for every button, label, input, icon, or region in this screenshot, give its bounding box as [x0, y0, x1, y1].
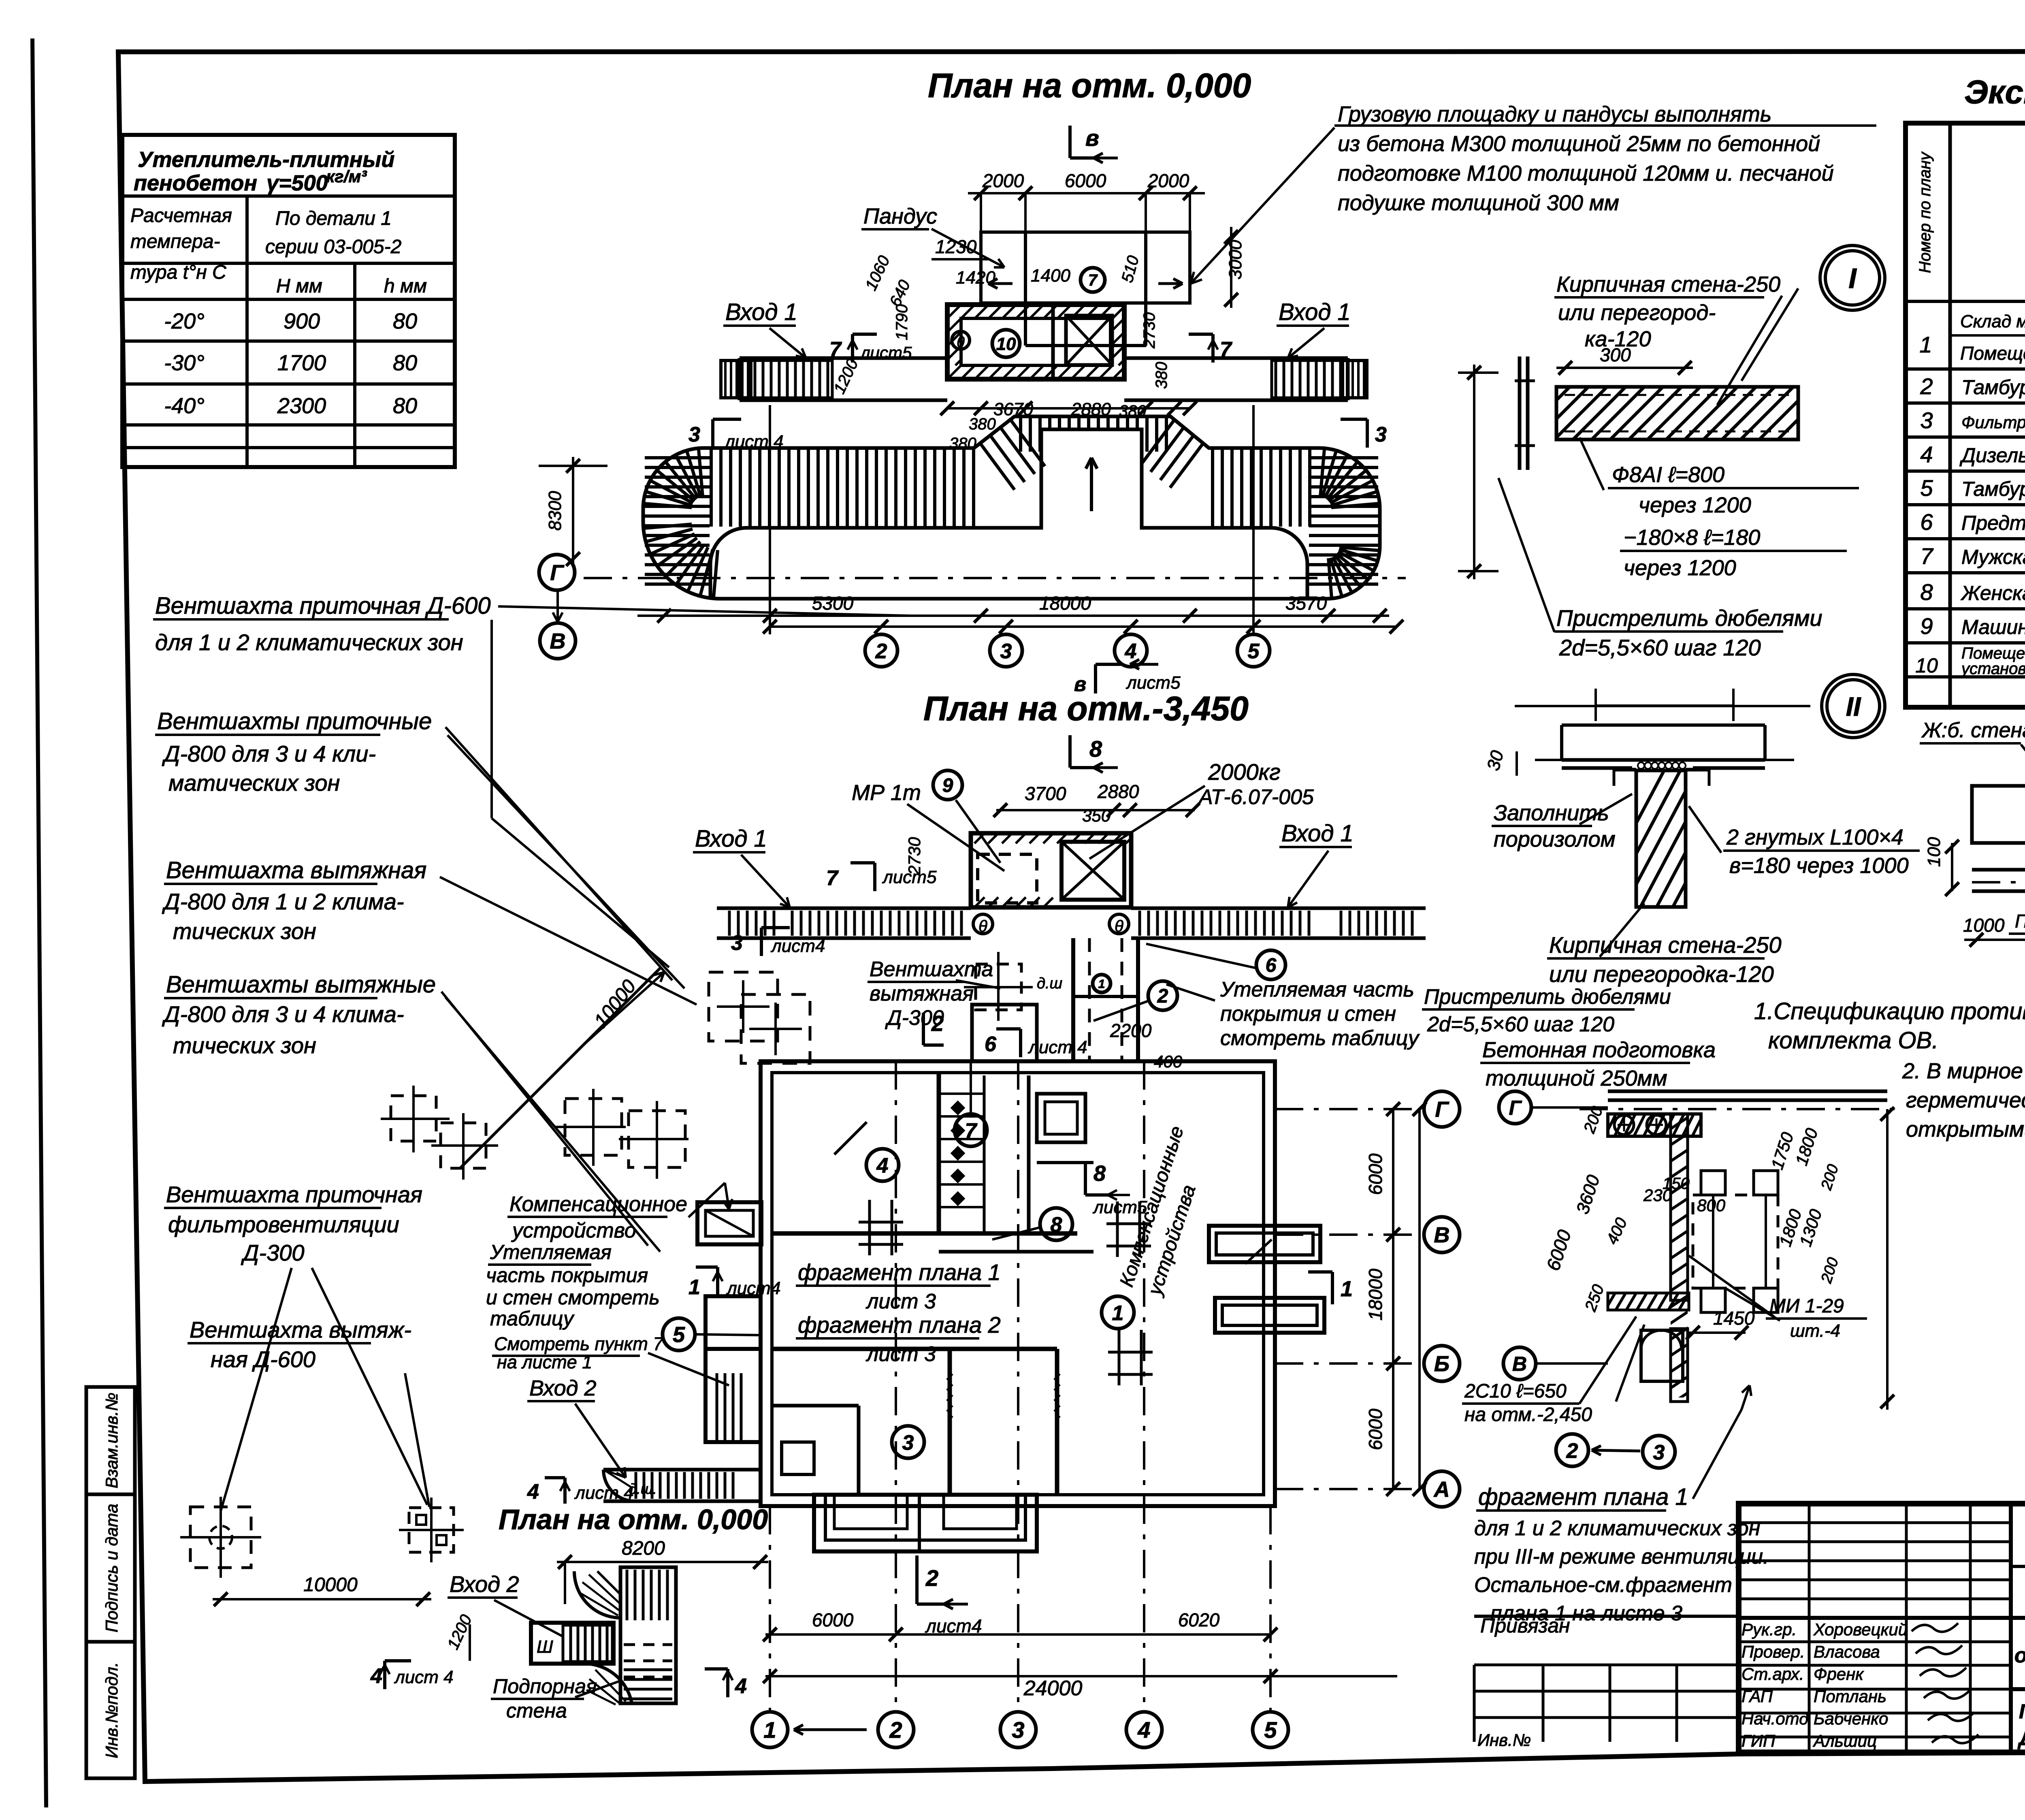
svg-text:Ш: Ш — [537, 1637, 553, 1657]
svg-text:24000: 24000 — [1023, 1677, 1083, 1700]
svg-text:для 1 и 2 климатических зон: для 1 и 2 климатических зон — [155, 629, 463, 655]
svg-text:Женская уборная: Женская уборная — [1960, 582, 2025, 604]
svg-text:6000: 6000 — [812, 1609, 854, 1630]
svg-text:оборудования отдельно: оборудования отдельно — [2014, 1644, 2025, 1667]
svg-text:через 1200: через 1200 — [1639, 493, 1751, 517]
svg-text:3: 3 — [1000, 640, 1012, 663]
svg-text:установки пожаротушения: установки пожаротушения — [1960, 660, 2025, 678]
svg-text:2d=5,5×60 шаг 120: 2d=5,5×60 шаг 120 — [1427, 1013, 1614, 1036]
svg-text:3: 3 — [1375, 423, 1387, 446]
svg-text:Потлань: Потлань — [1814, 1687, 1886, 1706]
svg-text:таблицу: таблицу — [490, 1307, 575, 1330]
svg-text:в=180 через 1000: в=180 через 1000 — [1729, 853, 1909, 878]
svg-text:7: 7 — [1220, 338, 1232, 361]
svg-text:II: II — [1846, 691, 1861, 721]
svg-text:Пристрелить дюбелями: Пристрелить дюбелями — [1556, 605, 1823, 631]
svg-text:лист5: лист5 — [882, 867, 937, 887]
svg-text:9: 9 — [1920, 613, 1933, 639]
svg-text:Бабченко: Бабченко — [1814, 1709, 1888, 1728]
svg-text:Д-800 для 1 и 2 клима-: Д-800 для 1 и 2 клима- — [162, 889, 404, 914]
svg-text:через 1200: через 1200 — [1624, 556, 1736, 580]
svg-text:6000: 6000 — [1365, 1153, 1386, 1195]
svg-text:2730: 2730 — [1140, 312, 1158, 349]
svg-text:Склад материалов и оборудовани: Склад материалов и оборудования — [1960, 312, 2025, 331]
svg-text:на листе 1: на листе 1 — [497, 1352, 592, 1372]
svg-text:лист4: лист4 — [925, 1615, 982, 1637]
svg-text:устройство: устройство — [511, 1219, 636, 1242]
svg-text:Нач.отд: Нач.отд — [1742, 1709, 1808, 1728]
svg-text:4: 4 — [370, 1664, 382, 1688]
svg-text:покрытия и стен: покрытия и стен — [1220, 1002, 1396, 1026]
svg-text:Компенсационное: Компенсационное — [509, 1193, 687, 1216]
svg-text:6000: 6000 — [1065, 170, 1106, 191]
svg-text:3: 3 — [688, 423, 700, 446]
svg-text:кг/м³: кг/м³ — [326, 167, 367, 186]
svg-text:тических зон: тических зон — [173, 918, 316, 944]
svg-text:Тамбур-шлюз: Тамбур-шлюз — [1961, 376, 2025, 399]
svg-text:θ: θ — [1115, 917, 1123, 935]
svg-text:шт.-4: шт.-4 — [1790, 1321, 1840, 1341]
svg-text:100: 100 — [1924, 837, 1944, 867]
svg-text:По детали 1: По детали 1 — [275, 208, 392, 229]
svg-text:4: 4 — [1137, 1717, 1150, 1743]
svg-text:10: 10 — [1915, 654, 1938, 677]
svg-text:Пандус: Пандус — [863, 204, 937, 228]
svg-text:6: 6 — [985, 1033, 997, 1056]
svg-text:МИ 1-29: МИ 1-29 — [1769, 1295, 1844, 1317]
svg-text:80: 80 — [393, 394, 417, 418]
svg-text:380: 380 — [1153, 362, 1170, 389]
svg-text:Вентшахта вытяж-: Вентшахта вытяж- — [190, 1317, 411, 1342]
svg-text:подушке толщиной 300 мм: подушке толщиной 300 мм — [1338, 191, 1619, 215]
svg-text:Утепляемая: Утепляемая — [490, 1241, 612, 1263]
svg-text:18000: 18000 — [1365, 1269, 1386, 1321]
svg-text:Подпись и дата: Подпись и дата — [102, 1504, 121, 1632]
svg-text:Вентшахта приточная Д-600: Вентшахта приточная Д-600 — [155, 593, 491, 619]
svg-text:1420: 1420 — [956, 268, 995, 288]
svg-text:2000: 2000 — [1147, 170, 1189, 191]
svg-text:7: 7 — [1088, 271, 1098, 289]
svg-text:6000: 6000 — [1365, 1408, 1386, 1450]
svg-text:стена: стена — [506, 1699, 567, 1722]
svg-text:80: 80 — [393, 309, 417, 333]
svg-text:7: 7 — [829, 338, 842, 361]
svg-text:18000: 18000 — [1039, 593, 1091, 614]
svg-text:2d=5,5×60 шаг 120: 2d=5,5×60 шаг 120 — [1559, 635, 1761, 660]
svg-text:Д-800 для 3 и 4 клима-: Д-800 для 3 и 4 клима- — [162, 1001, 404, 1027]
svg-text:Г: Г — [550, 561, 565, 585]
svg-text:6: 6 — [1920, 509, 1933, 535]
svg-text:9: 9 — [942, 775, 953, 796]
svg-text:Фильтровентиляционное помещени: Фильтровентиляционное помещение — [1961, 413, 2025, 432]
svg-text:В: В — [1512, 1353, 1527, 1375]
svg-text:фрагмент плана 1: фрагмент плана 1 — [1478, 1484, 1688, 1510]
svg-text:комплекта ОВ.: комплекта ОВ. — [1768, 1027, 1938, 1054]
svg-text:1700: 1700 — [277, 351, 326, 375]
svg-text:5300: 5300 — [812, 593, 854, 614]
svg-text:−180×8 ℓ=180: −180×8 ℓ=180 — [1624, 525, 1760, 550]
svg-text:ГИП: ГИП — [1742, 1731, 1776, 1750]
svg-text:3: 3 — [1012, 1717, 1024, 1743]
svg-text:или перегород-: или перегород- — [1558, 301, 1716, 325]
svg-text:Дизельная электростанция: Дизельная электростанция — [1959, 444, 2025, 467]
svg-text:Мужская уборная: Мужская уборная — [1961, 546, 2025, 568]
svg-text:8: 8 — [1051, 1213, 1062, 1237]
svg-text:Пристрелить дюбелями: Пристрелить дюбелями — [1424, 985, 1671, 1009]
svg-text:3570: 3570 — [1285, 593, 1327, 614]
svg-text:А: А — [1433, 1477, 1450, 1502]
svg-text:фрагмент плана 2: фрагмент плана 2 — [798, 1312, 1001, 1338]
svg-text:7: 7 — [1920, 543, 1933, 569]
svg-text:Вход 1: Вход 1 — [695, 826, 767, 852]
svg-text:Вентшахты вытяжные: Вентшахты вытяжные — [166, 971, 436, 998]
svg-text:открытыми для ввода средств: открытыми для ввода средств пожаротушени… — [1906, 1117, 2025, 1142]
svg-text:2880: 2880 — [1097, 781, 1139, 802]
svg-text:в: в — [1085, 125, 1099, 151]
svg-text:2000: 2000 — [982, 170, 1024, 191]
svg-text:герметические двери входов: герметические двери входов 1,2 должны бы… — [1906, 1088, 2025, 1112]
svg-text:фрагмент плана 1: фрагмент плана 1 — [798, 1259, 1001, 1285]
svg-text:Г: Г — [1435, 1097, 1449, 1122]
svg-text:вытяжная: вытяжная — [870, 982, 974, 1005]
svg-text:1.Спецификацию противовзрывных: 1.Спецификацию противовзрывных устройств… — [1754, 998, 2025, 1024]
svg-text:1: 1 — [763, 1717, 776, 1743]
svg-text:2. В мирное время защитно-г: 2. В мирное время защитно-герметические … — [1902, 1059, 2025, 1083]
svg-text:I: I — [1848, 262, 1857, 294]
svg-text:8200: 8200 — [622, 1538, 665, 1559]
svg-text:-30°: -30° — [164, 351, 205, 375]
svg-text:1: 1 — [1098, 977, 1105, 991]
svg-text:80: 80 — [393, 351, 417, 375]
svg-text:2: 2 — [925, 1565, 938, 1591]
svg-text:10: 10 — [996, 334, 1016, 354]
svg-text:тура t°н C: тура t°н C — [130, 262, 226, 283]
svg-text:толщиной 250мм: толщиной 250мм — [1486, 1066, 1667, 1090]
svg-text:6: 6 — [1266, 955, 1277, 976]
svg-text:6020: 6020 — [1178, 1609, 1220, 1630]
svg-text:2: 2 — [875, 640, 887, 663]
svg-text:лист4: лист4 — [770, 936, 825, 956]
svg-text:Помещение для укрываемых: Помещение для укрываемых — [1960, 343, 2025, 364]
svg-text:лист 4: лист 4 — [574, 1483, 634, 1503]
svg-text:Н мм: Н мм — [276, 275, 322, 297]
svg-text:Инв.№: Инв.№ — [1477, 1730, 1531, 1750]
svg-text:на отм.-2,450: на отм.-2,450 — [1464, 1404, 1592, 1425]
svg-text:900: 900 — [283, 309, 320, 333]
svg-text:серии 03-005-2: серии 03-005-2 — [265, 236, 401, 258]
svg-text:4: 4 — [1125, 640, 1137, 663]
svg-text:800: 800 — [1697, 1196, 1726, 1215]
svg-text:5: 5 — [1920, 475, 1933, 501]
svg-text:Альшиц: Альшиц — [1812, 1731, 1877, 1750]
svg-text:Вход 2: Вход 2 — [450, 1571, 519, 1597]
svg-text:3700: 3700 — [1025, 783, 1066, 804]
svg-text:Тамбур: Тамбур — [1961, 478, 2025, 500]
svg-text:Ст.арх.: Ст.арх. — [1742, 1664, 1804, 1683]
svg-text:1: 1 — [1112, 1302, 1124, 1325]
svg-text:Д-300: Д-300 — [241, 1240, 305, 1265]
svg-text:2: 2 — [931, 1011, 944, 1036]
svg-text:темпера-: темпера- — [130, 231, 220, 252]
svg-text:и стен смотреть: и стен смотреть — [486, 1286, 660, 1309]
svg-text:лист4: лист4 — [726, 1278, 780, 1298]
svg-text:лист 3: лист 3 — [865, 1342, 936, 1366]
svg-text:Вентшахты приточные: Вентшахты приточные — [157, 708, 432, 734]
svg-text:лист5: лист5 — [1125, 673, 1181, 693]
svg-text:380: 380 — [969, 415, 996, 433]
svg-text:МР 1т: МР 1т — [852, 781, 921, 805]
svg-text:пороизолом: пороизолом — [1494, 827, 1616, 851]
svg-text:План на отм. 0,000: План на отм. 0,000 — [928, 66, 1251, 105]
svg-text:Вход 2: Вход 2 — [529, 1376, 597, 1400]
svg-text:Рук.гр.: Рук.гр. — [1742, 1620, 1797, 1639]
svg-text:Предтамбуры: Предтамбуры — [1961, 512, 2025, 534]
svg-text:4: 4 — [735, 1675, 747, 1698]
svg-text:плана 1 на листе 3: плана 1 на листе 3 — [1490, 1602, 1682, 1625]
svg-text:Смотреть пункт 7: Смотреть пункт 7 — [494, 1334, 664, 1354]
svg-text:8300: 8300 — [545, 491, 565, 531]
svg-text:3000: 3000 — [1226, 240, 1245, 280]
svg-text:Френк: Френк — [1814, 1664, 1864, 1683]
svg-text:Власова: Власова — [1814, 1642, 1880, 1661]
svg-text:часть покрытия: часть покрытия — [486, 1264, 648, 1287]
svg-text:Хоровецкий: Хоровецкий — [1813, 1620, 1908, 1639]
svg-text:4: 4 — [1920, 442, 1933, 467]
svg-text:h мм: h мм — [384, 275, 427, 297]
svg-text:Утепляемая часть: Утепляемая часть — [1220, 978, 1414, 1001]
svg-text:θ: θ — [978, 917, 987, 935]
svg-text:1400: 1400 — [1031, 266, 1070, 286]
svg-text:Машинное помещение лифта: Машинное помещение лифта — [1961, 616, 2025, 638]
svg-text:5: 5 — [1264, 1717, 1277, 1743]
svg-text:2 гнутых L100×4: 2 гнутых L100×4 — [1726, 825, 1904, 849]
svg-text:Вентшахта вытяжная: Вентшахта вытяжная — [166, 857, 426, 883]
svg-text:Вход 1: Вход 1 — [1281, 820, 1354, 847]
svg-text:в: в — [1074, 673, 1086, 696]
svg-text:фильтровентиляции: фильтровентиляции — [168, 1212, 399, 1237]
svg-text:тических зон: тических зон — [173, 1033, 316, 1058]
svg-text:θ: θ — [957, 334, 965, 350]
svg-text:Вход 1: Вход 1 — [725, 299, 797, 325]
svg-text:1790: 1790 — [893, 304, 911, 340]
svg-text:γ=500: γ=500 — [266, 171, 328, 195]
svg-text:Грузовую площадку и пандусы: Грузовую площадку и пандусы выполнять — [1338, 102, 1771, 126]
svg-text:3: 3 — [1653, 1441, 1665, 1464]
svg-text:2: 2 — [1920, 373, 1933, 399]
svg-text:Кирпичная стена-250: Кирпичная стена-250 — [1556, 272, 1780, 297]
svg-text:3: 3 — [731, 931, 743, 955]
svg-text:лист 3: лист 3 — [865, 1290, 936, 1313]
svg-text:АТ-6.07-005: АТ-6.07-005 — [1198, 785, 1314, 809]
svg-text:8: 8 — [1920, 579, 1933, 605]
svg-text:лист 4: лист 4 — [394, 1667, 454, 1687]
svg-text:В: В — [1434, 1223, 1450, 1247]
svg-text:План на отм. 0,000: План на отм. 0,000 — [499, 1504, 768, 1535]
svg-text:1: 1 — [688, 1276, 700, 1299]
svg-text:1000: 1000 — [1963, 915, 2005, 936]
svg-text:8: 8 — [1093, 1161, 1106, 1186]
svg-text:подготовке М100 толщиной 120мм: подготовке М100 толщиной 120мм и. песчан… — [1338, 161, 1834, 186]
svg-text:Провер.: Провер. — [1742, 1642, 1805, 1661]
svg-text:1: 1 — [1341, 1277, 1353, 1301]
svg-text:2200: 2200 — [1110, 1020, 1152, 1041]
svg-text:Кирпичная стена-250: Кирпичная стена-250 — [1549, 932, 1782, 958]
svg-text:Остальное-см.фрагмент: Остальное-см.фрагмент — [1474, 1573, 1732, 1597]
svg-text:Инв.№подл.: Инв.№подл. — [102, 1662, 121, 1758]
svg-text:Планы на отм.-3,450и0,000: Планы на отм.-3,450и0,000 — [2019, 1700, 2025, 1723]
svg-text:-40°: -40° — [164, 394, 205, 418]
svg-text:Бетонная подготовка: Бетонная подготовка — [1482, 1038, 1716, 1062]
svg-text:Д-800 для 3 и 4 кли-: Д-800 для 3 и 4 кли- — [162, 741, 376, 766]
svg-text:Заполнить: Заполнить — [1494, 801, 1609, 825]
svg-text:матических зон: матических зон — [168, 770, 340, 796]
svg-text:для 1 и 2 климатических зон: для 1 и 2 климатических зон — [1474, 1517, 1760, 1540]
svg-text:лист5: лист5 — [859, 343, 912, 362]
svg-text:смотреть таблицу: смотреть таблицу — [1220, 1026, 1420, 1050]
svg-text:лист 4: лист 4 — [1027, 1037, 1087, 1057]
svg-text:2: 2 — [1566, 1439, 1578, 1463]
svg-text:2: 2 — [889, 1717, 902, 1743]
svg-text:150: 150 — [1663, 1175, 1690, 1193]
svg-text:Б: Б — [1434, 1352, 1449, 1376]
svg-text:П-2: П-2 — [2015, 911, 2025, 932]
svg-text:из бетона М300 толщиной 25мм п: из бетона М300 толщиной 25мм по бетонной — [1338, 132, 1820, 156]
svg-text:1230: 1230 — [935, 236, 977, 257]
svg-text:Экспликация помещений: Экспликация помещений — [1964, 74, 2025, 111]
svg-text:3: 3 — [902, 1431, 914, 1455]
svg-text:2000кг: 2000кг — [1208, 759, 1281, 785]
svg-text:3: 3 — [1920, 408, 1933, 433]
svg-text:300: 300 — [1600, 344, 1631, 365]
svg-text:Г: Г — [1509, 1097, 1522, 1119]
svg-text:д.ш: д.ш — [1037, 975, 1062, 992]
svg-text:7: 7 — [826, 866, 839, 890]
svg-text:4: 4 — [527, 1480, 539, 1504]
svg-text:10000: 10000 — [303, 1574, 358, 1596]
svg-text:2С10 ℓ=650: 2С10 ℓ=650 — [1464, 1380, 1567, 1402]
svg-text:5: 5 — [1248, 640, 1260, 663]
svg-text:В: В — [550, 629, 566, 653]
svg-text:лист5: лист5 — [1092, 1197, 1147, 1217]
svg-text:2300: 2300 — [277, 394, 326, 418]
svg-text:при III-м режиме вентиляции.: при III-м режиме вентиляции. — [1474, 1545, 1769, 1568]
svg-text:8: 8 — [1089, 736, 1102, 762]
svg-text:Расчетная: Расчетная — [130, 205, 232, 226]
svg-text:Ж:б. стена: Ж:б. стена — [1921, 719, 2025, 742]
svg-text:или перегородка-120: или перегородка-120 — [1549, 961, 1774, 987]
svg-text:5: 5 — [673, 1323, 685, 1347]
svg-text:-20°: -20° — [164, 309, 205, 333]
svg-text:4: 4 — [876, 1154, 889, 1178]
svg-text:ГАП: ГАП — [1742, 1687, 1773, 1706]
svg-text:Ф8АI ℓ=800: Ф8АI ℓ=800 — [1612, 463, 1724, 487]
svg-text:1: 1 — [1919, 332, 1932, 357]
svg-text:Вход 1: Вход 1 — [1279, 299, 1351, 325]
svg-text:Номер по плану: Номер по плану — [1916, 151, 1934, 273]
svg-text:Вентшахта приточная: Вентшахта приточная — [166, 1182, 422, 1207]
svg-text:Взам.инв.№: Взам.инв.№ — [102, 1393, 121, 1488]
svg-text:2: 2 — [1157, 986, 1168, 1007]
svg-text:1450: 1450 — [1713, 1308, 1755, 1329]
svg-text:пенобетон: пенобетон — [134, 171, 257, 195]
